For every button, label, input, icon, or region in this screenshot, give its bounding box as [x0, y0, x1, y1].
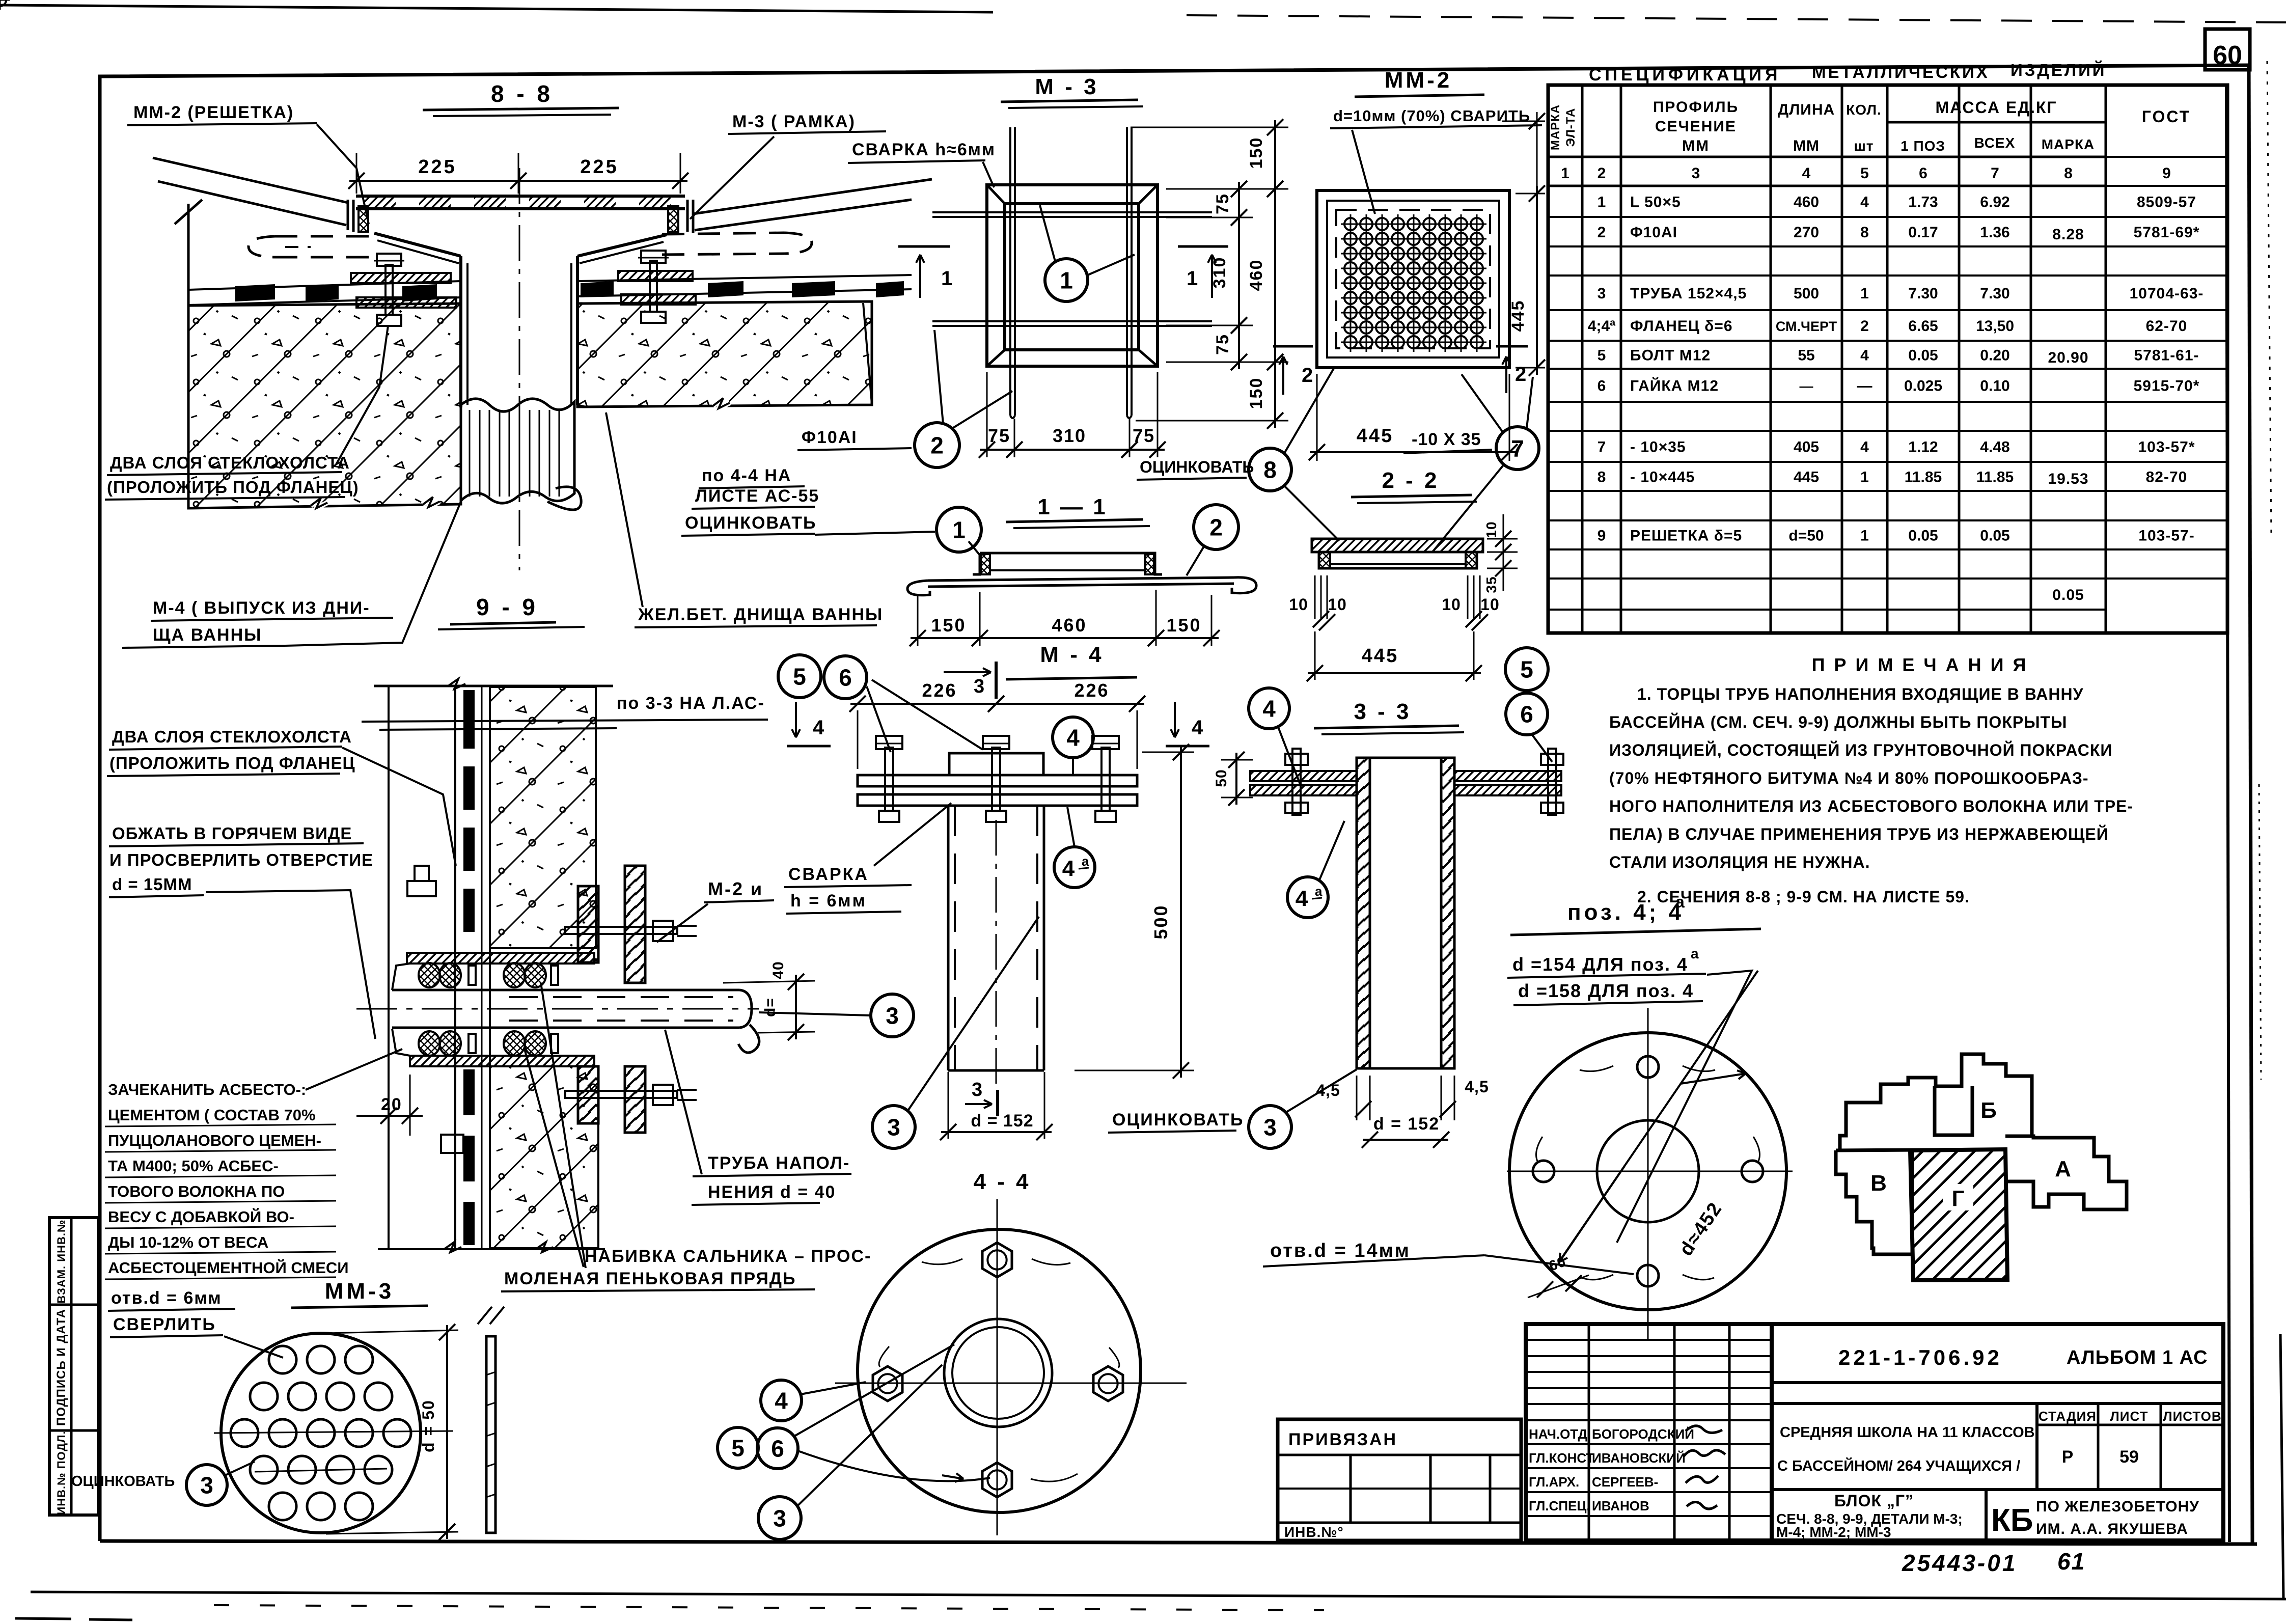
- svg-text:отв.d = 6мм: отв.d = 6мм: [111, 1288, 222, 1308]
- callout 3 MM-3: [186, 1465, 227, 1505]
- bath floor lines left: [153, 158, 348, 203]
- svg-text:4,5: 4,5: [1465, 1078, 1489, 1096]
- title block names table: [1588, 1324, 1590, 1540]
- MM-2 dashed border: [1327, 201, 1499, 357]
- detail 1-1 channel body: [980, 553, 1162, 574]
- svg-text:25443-01: 25443-01: [1902, 1550, 2017, 1576]
- svg-text:103-57*: 103-57*: [2138, 439, 2195, 456]
- svg-text:ЭЛ-ТА: ЭЛ-ТА: [1564, 108, 1578, 147]
- building plan block A outline: [2005, 1136, 2127, 1209]
- MM-3 break marks: [478, 1307, 504, 1324]
- svg-text:0.10: 0.10: [1980, 378, 2009, 395]
- svg-text:d = 15ММ: d = 15ММ: [112, 875, 192, 894]
- callout 4a M-4: [1054, 847, 1095, 888]
- M-4 dim d=152: [948, 1072, 949, 1139]
- svg-text:5: 5: [793, 664, 806, 690]
- MM-2 grate outer square: [1317, 190, 1509, 368]
- leader to grate: [317, 124, 369, 224]
- leader M-2: [657, 904, 708, 942]
- svg-text:а: а: [1082, 854, 1089, 869]
- grate right angle bracket: [686, 200, 689, 232]
- svg-text:ОЦИНКОВАТЬ: ОЦИНКОВАТЬ: [71, 1473, 175, 1490]
- 3-3 flange right: [1454, 771, 1561, 781]
- MM-3 holes: [269, 1346, 296, 1373]
- svg-text:310: 310: [1210, 257, 1229, 289]
- concrete slab right 8-8: [577, 301, 872, 407]
- svg-text:d = 50: d = 50: [419, 1399, 437, 1452]
- svg-text:ММ-3: ММ-3: [325, 1279, 394, 1304]
- svg-text:2: 2: [930, 432, 944, 459]
- 4-4 crosshair: [835, 1383, 1187, 1384]
- svg-text:ИНВ.№ ПОДЛ.: ИНВ.№ ПОДЛ.: [55, 1430, 68, 1515]
- svg-text:8: 8: [1263, 457, 1277, 483]
- svg-text:7: 7: [1511, 435, 1524, 462]
- svg-text:0.05: 0.05: [1908, 347, 1938, 364]
- pipe drip loop 9-9: [738, 1025, 759, 1053]
- M-4 center plate stub: [949, 753, 1043, 775]
- svg-text:НОГО НАПОЛНИТЕЛЯ ИЗ АСБЕСТО: НОГО НАПОЛНИТЕЛЯ ИЗ АСБЕСТОВОГО ВОЛОКНА …: [1609, 797, 2133, 815]
- svg-text:И ПРОСВЕРЛИТЬ ОТВЕРСТИЕ: И ПРОСВЕРЛИТЬ ОТВЕРСТИЕ: [109, 850, 373, 869]
- svg-text:3: 3: [1692, 165, 1700, 182]
- leader svarka M-3: [983, 162, 994, 187]
- svg-text:10: 10: [1289, 595, 1308, 614]
- svg-text:ФЛАНЕЦ δ=6: ФЛАНЕЦ δ=6: [1630, 318, 1733, 335]
- svg-text:2: 2: [1598, 165, 1606, 182]
- svg-text:ВЕСУ С ДОБАВКОЙ ВО-: ВЕСУ С ДОБАВКОЙ ВО-: [108, 1207, 294, 1226]
- svg-text:1 ПОЗ: 1 ПОЗ: [1901, 138, 1945, 154]
- svg-text:11.85: 11.85: [1976, 469, 2014, 486]
- svg-text:ГАЙКА М12: ГАЙКА М12: [1630, 377, 1719, 395]
- svg-text:МЕТАЛЛИЧЕСКИХ: МЕТАЛЛИЧЕСКИХ: [1812, 63, 1990, 81]
- svg-text:4: 4: [1062, 856, 1075, 881]
- svg-text:4: 4: [1860, 439, 1869, 456]
- poz4 diagonal dim d=452: [1558, 971, 1758, 1263]
- svg-text:СВАРКА: СВАРКА: [788, 865, 869, 884]
- svg-text:ПЕЛА) В СЛУЧАЕ ПРИМЕНЕНИЯ: ПЕЛА) В СЛУЧАЕ ПРИМЕНЕНИЯ ТРУБ ИЗ НЕРЖАВ…: [1609, 825, 2109, 843]
- svg-text:Φ10АI: Φ10АI: [1630, 224, 1677, 241]
- svg-text:ПУЦЦОЛАНОВОГО ЦЕМЕН-: ПУЦЦОЛАНОВОГО ЦЕМЕН-: [108, 1132, 321, 1149]
- leaders 4-4 callouts: [794, 1344, 954, 1436]
- svg-text:0.05: 0.05: [1980, 528, 2009, 544]
- svg-text:h = 6мм: h = 6мм: [790, 891, 867, 911]
- dashed anchor hook left: [275, 235, 377, 238]
- svg-text:4: 4: [1066, 725, 1080, 751]
- svg-text:8: 8: [1598, 469, 1606, 486]
- svg-text:МАРКА: МАРКА: [1549, 104, 1562, 150]
- svg-text:9: 9: [2162, 165, 2171, 182]
- poz4 bolt holes: [1637, 1056, 1659, 1078]
- svg-text:11.85: 11.85: [1905, 469, 1942, 486]
- svg-text:61: 61: [2057, 1548, 2085, 1575]
- svg-text:460: 460: [1052, 615, 1087, 636]
- svg-text:1. ТОРЦЫ ТРУБ НАПОЛНЕНИЯ ВХ: 1. ТОРЦЫ ТРУБ НАПОЛНЕНИЯ ВХОДЯЩИЕ В ВАНН…: [1637, 685, 2084, 703]
- section mark 3 bottom M-4: [996, 1090, 999, 1116]
- svg-text:5: 5: [1520, 656, 1533, 683]
- leader svarka M-4: [874, 803, 951, 866]
- svg-text:М-2 и: М-2 и: [708, 878, 763, 899]
- leader zhel bet: [606, 412, 643, 607]
- building plan notch rect: [1935, 1086, 1972, 1135]
- svg-text:ОЦИНКОВАТЬ: ОЦИНКОВАТЬ: [1112, 1110, 1244, 1130]
- leaders callout 6 M-4: [867, 686, 891, 752]
- svg-text:БОГОРОДСКИЙ: БОГОРОДСКИЙ: [1592, 1426, 1694, 1442]
- building plan letter G: [1943, 1184, 1973, 1210]
- svg-text:а: а: [1315, 884, 1323, 899]
- svg-text:2: 2: [1860, 318, 1869, 335]
- funnel walls: [374, 233, 461, 256]
- sheet number box 60: [2205, 29, 2250, 70]
- callout 3 3-3: [1249, 1106, 1291, 1148]
- svg-text:1: 1: [1860, 469, 1869, 486]
- svg-text:4,5: 4,5: [1316, 1081, 1340, 1099]
- svg-text:А: А: [2055, 1157, 2071, 1181]
- svg-text:ГОСТ: ГОСТ: [2142, 107, 2191, 126]
- M-3 bottom dimension 75 310 75: [986, 372, 988, 457]
- 2-2 right small dims 10 35: [1487, 538, 1518, 540]
- membrane band right: [577, 275, 912, 281]
- svg-text:10: 10: [1328, 595, 1347, 614]
- svg-text:ИВАНОВ: ИВАНОВ: [1592, 1498, 1649, 1513]
- leaders callout 8: [1284, 368, 1334, 453]
- title block stage-sheet columns: [2035, 1403, 2039, 1490]
- callout 6 3-3: [1506, 693, 1548, 735]
- svg-text:НАЧ.ОТД.: НАЧ.ОТД.: [1529, 1426, 1591, 1442]
- 9-9 reference lines: [362, 720, 768, 722]
- svg-text:460: 460: [1247, 259, 1266, 291]
- svg-text:НАБИВКА САЛЬНИКА – ПРОС-: НАБИВКА САЛЬНИКА – ПРОС-: [585, 1247, 871, 1266]
- svg-text:ИЗДЕЛИЙ: ИЗДЕЛИЙ: [2010, 60, 2107, 79]
- svg-text:ПРИВЯЗАН: ПРИВЯЗАН: [1288, 1430, 1397, 1449]
- 3-3 pipe walls hatched: [1357, 758, 1370, 1068]
- svg-text:КБ: КБ: [1991, 1503, 2033, 1538]
- svg-text:1: 1: [1060, 267, 1073, 294]
- svg-text:150: 150: [1247, 137, 1266, 169]
- M-3 frame corner miters: [987, 185, 1005, 204]
- callout 8: [1249, 448, 1291, 491]
- M-4 dim 226 226: [857, 710, 859, 769]
- svg-text:150: 150: [931, 615, 966, 636]
- svg-text:1.36: 1.36: [1980, 224, 2009, 241]
- svg-text:5: 5: [1860, 165, 1869, 182]
- svg-text:поз. 4; 4: поз. 4; 4: [1567, 900, 1684, 925]
- 3-3 flange left: [1250, 771, 1357, 781]
- svg-text:2: 2: [1515, 363, 1526, 386]
- svg-text:СТАЛИ ИЗОЛЯЦИЯ НЕ НУЖНА.: СТАЛИ ИЗОЛЯЦИЯ НЕ НУЖНА.: [1609, 853, 1870, 871]
- svg-text:СТАДИЯ: СТАДИЯ: [2039, 1409, 2097, 1424]
- svg-text:4: 4: [775, 1388, 788, 1414]
- 9-9 upper bolt: [565, 927, 677, 934]
- svg-text:БАССЕЙНА (СМ. СЕЧ. 9-9) ДОЛ: БАССЕЙНА (СМ. СЕЧ. 9-9) ДОЛЖНЫ БЫТЬ ПОКР…: [1609, 713, 2067, 731]
- svg-text:М-4; ММ-2; ММ-3: М-4; ММ-2; ММ-3: [1776, 1524, 1891, 1540]
- 9-9 packing rings upper: [419, 963, 440, 987]
- svg-text:L 50×5: L 50×5: [1630, 194, 1681, 211]
- M-3 horizontal rods: [932, 211, 1212, 213]
- svg-text:ПОДПИСЬ И ДАТА: ПОДПИСЬ И ДАТА: [54, 1309, 68, 1426]
- svg-text:5: 5: [1598, 347, 1606, 364]
- section mark 2 left MM-2: [1273, 345, 1313, 348]
- svg-text:3: 3: [974, 676, 984, 697]
- 9-9 wall layers: [454, 686, 456, 1249]
- 4-4 nut swash arcs: [922, 1259, 962, 1264]
- leader truba: [665, 1030, 702, 1174]
- 9-9 wall black membrane strips: [463, 690, 475, 749]
- 4-4 center hole: [944, 1319, 1052, 1427]
- svg-text:по 3-3 НА Л.АС-: по 3-3 НА Л.АС-: [617, 694, 765, 713]
- svg-text:а: а: [1675, 893, 1685, 911]
- svg-text:d = 152: d = 152: [971, 1111, 1033, 1131]
- title block left table ПРИВЯЗАН: [1278, 1419, 1521, 1540]
- svg-text:150: 150: [1247, 377, 1266, 409]
- callout 6 4-4: [757, 1428, 798, 1469]
- svg-text:82-70: 82-70: [2146, 469, 2188, 486]
- svg-text:20.90: 20.90: [2048, 349, 2088, 366]
- svg-text:отв.d = 14мм: отв.d = 14мм: [1270, 1240, 1411, 1261]
- svg-text:0.05: 0.05: [2052, 587, 2084, 603]
- 9-9 concrete wall upper: [490, 687, 596, 948]
- svg-text:М - 3: М - 3: [1035, 74, 1098, 99]
- svg-text:4;4ª: 4;4ª: [1588, 318, 1616, 335]
- svg-text:75: 75: [1213, 334, 1232, 355]
- svg-text:40: 40: [770, 961, 787, 979]
- svg-text:СМ.ЧЕРТ: СМ.ЧЕРТ: [1776, 319, 1837, 334]
- callout 7: [1496, 427, 1539, 470]
- svg-text:- 10×445: - 10×445: [1630, 469, 1695, 486]
- svg-text:СВЕРЛИТЬ: СВЕРЛИТЬ: [113, 1315, 216, 1334]
- svg-text:445: 445: [1362, 645, 1398, 667]
- svg-text:13,50: 13,50: [1976, 318, 2014, 335]
- svg-text:7: 7: [1598, 439, 1606, 456]
- svg-text:(ПРОЛОЖИТЬ ПОД ФЛАНЕЦ): (ПРОЛОЖИТЬ ПОД ФЛАНЕЦ): [107, 478, 359, 497]
- svg-text:ИНВ.№°: ИНВ.№°: [1284, 1524, 1344, 1540]
- building plan block V outline: [1836, 1150, 1912, 1254]
- svg-text:1.12: 1.12: [1908, 439, 1938, 456]
- svg-text:60: 60: [2213, 41, 2242, 70]
- callout 5 4-4: [718, 1427, 758, 1468]
- grate left angle bracket: [347, 200, 349, 230]
- 9-9 left anchor nuts: [407, 881, 436, 896]
- svg-text:3: 3: [773, 1505, 786, 1532]
- M-3 vertical rods: [1009, 127, 1011, 416]
- svg-text:ИЗОЛЯЦИЕЙ, СОСТОЯЩЕЙ ИЗ ГРУНТ: ИЗОЛЯЦИЕЙ, СОСТОЯЩЕЙ ИЗ ГРУНТОВОЧНОЙ ПОК…: [1609, 741, 2112, 759]
- 3-3 bolts: [1292, 749, 1301, 815]
- section mark 3 top M-4: [995, 662, 998, 699]
- svg-text:(70% НЕФТЯНОГО БИТУМА №4 И: (70% НЕФТЯНОГО БИТУМА №4 И 80% ПОРОШКООБ…: [1609, 769, 2089, 787]
- svg-text:МОЛЕНАЯ ПЕНЬКОВАЯ ПРЯДЬ: МОЛЕНАЯ ПЕНЬКОВАЯ ПРЯДЬ: [504, 1269, 796, 1288]
- svg-text:ЛИСТОВ: ЛИСТОВ: [2163, 1409, 2221, 1424]
- dashed anchor hook right: [662, 233, 784, 234]
- 9-9 wall bottom line: [378, 1248, 605, 1250]
- MM-3 side bar: [486, 1336, 495, 1533]
- svg-text:по 4-4 НА: по 4-4 НА: [702, 466, 791, 485]
- svg-text:75: 75: [1213, 193, 1232, 214]
- 9-9 lower bolt: [565, 1091, 677, 1098]
- svg-text:ЛИСТЕ АС-55: ЛИСТЕ АС-55: [695, 486, 819, 506]
- svg-text:8: 8: [1860, 224, 1869, 241]
- 2-2 bottom dims 10 10 pairs: [1314, 575, 1316, 619]
- svg-text:9: 9: [1598, 528, 1606, 544]
- title block project row: [1772, 1381, 2223, 1384]
- svg-text:МАРКА: МАРКА: [2042, 136, 2095, 152]
- svg-text:8: 8: [2064, 165, 2073, 182]
- section mark 4 down left: [795, 702, 797, 737]
- svg-text:ЛИСТ: ЛИСТ: [2110, 1409, 2149, 1424]
- svg-text:РЕШЕТКА δ=5: РЕШЕТКА δ=5: [1630, 528, 1742, 544]
- signature squiggles: [1686, 1426, 1722, 1433]
- poz4 crosshair: [1507, 1171, 1793, 1172]
- svg-text:1: 1: [1860, 285, 1869, 302]
- svg-text:7: 7: [1991, 165, 1999, 182]
- svg-text:1: 1: [1598, 194, 1606, 211]
- svg-text:ПРОФИЛЬ: ПРОФИЛЬ: [1653, 99, 1739, 116]
- M-4 bolts: [885, 748, 893, 811]
- svg-text:3: 3: [886, 1003, 899, 1029]
- svg-text:ДЫ 10-12% ОТ ВЕСА: ДЫ 10-12% ОТ ВЕСА: [108, 1233, 268, 1251]
- 9-9 left boundary line: [388, 686, 390, 1249]
- svg-text:ЖЕЛ.БЕТ. ДНИЩА ВАННЫ: ЖЕЛ.БЕТ. ДНИЩА ВАННЫ: [638, 605, 883, 624]
- svg-text:ММ-2: ММ-2: [1385, 68, 1452, 93]
- MM-2 dimension 445 bottom: [1316, 374, 1318, 461]
- 4-4 hex nuts: [982, 1243, 1012, 1277]
- M-3 frame outer square: [987, 185, 1158, 366]
- svg-text:460: 460: [1794, 194, 1819, 211]
- svg-text:М - 4: М - 4: [1040, 642, 1104, 667]
- svg-text:ММ: ММ: [1682, 137, 1710, 154]
- svg-text:П Р И М Е Ч А Н И Я: П Р И М Е Ч А Н И Я: [1812, 654, 2028, 675]
- pipe centerline: [519, 168, 520, 570]
- title block sheet content: [1985, 1490, 1988, 1540]
- M-3 dimension chain 75 310 75 right: [1166, 188, 1253, 190]
- svg-text:10704-63-: 10704-63-: [2130, 285, 2204, 302]
- svg-text:СВАРКА h≈6мм: СВАРКА h≈6мм: [852, 140, 996, 159]
- svg-text:ГЛ.СПЕЦ.: ГЛ.СПЕЦ.: [1529, 1498, 1590, 1513]
- svg-text:4: 4: [1860, 194, 1869, 211]
- drain pipe 8-8: [459, 256, 462, 407]
- dim 40 right of pipe 9-9: [723, 981, 815, 983]
- section mark 1 right: [1178, 245, 1228, 248]
- leader zachekanit: [306, 1049, 402, 1090]
- callout 4 3-3: [1249, 688, 1289, 729]
- callout 2 M-3: [915, 423, 959, 467]
- svg-text:5915-70*: 5915-70*: [2134, 378, 2200, 395]
- left boundary line 8-8: [187, 204, 190, 508]
- svg-text:4: 4: [1860, 347, 1869, 364]
- svg-text:ЗАЧЕКАНИТЬ АСБЕСТО-:: ЗАЧЕКАНИТЬ АСБЕСТО-:: [108, 1081, 306, 1098]
- svg-text:0.05: 0.05: [1908, 528, 1938, 544]
- leader to flange holes: [1617, 971, 1752, 1243]
- svg-text:4: 4: [1296, 886, 1308, 911]
- svg-text:3: 3: [1598, 285, 1606, 302]
- leader sverlit: [224, 1336, 283, 1358]
- svg-text:ДВА СЛОЯ СТЕКЛОХОЛСТА: ДВА СЛОЯ СТЕКЛОХОЛСТА: [112, 727, 352, 746]
- bath floor lines right: [693, 179, 932, 214]
- svg-text:ММ: ММ: [1793, 137, 1820, 154]
- svg-text:4: 4: [1192, 717, 1203, 739]
- svg-text:АСБЕСТОЦЕМЕНТНОЙ СМЕСИ: АСБЕСТОЦЕМЕНТНОЙ СМЕСИ: [108, 1258, 349, 1277]
- section mark 4 down right: [1174, 702, 1176, 737]
- svg-text:1: 1: [1860, 528, 1869, 544]
- leader dva sloya 9-9: [342, 748, 456, 866]
- svg-text:4: 4: [1802, 165, 1811, 182]
- detail 1-1 bottom strip with hooks: [928, 577, 1234, 581]
- svg-text:ОБЖАТЬ В ГОРЯЧЕМ ВИДЕ: ОБЖАТЬ В ГОРЯЧЕМ ВИДЕ: [112, 824, 352, 843]
- svg-text:1: 1: [1187, 267, 1198, 290]
- svg-text:6.65: 6.65: [1908, 318, 1938, 335]
- 9-9 sleeve top plate: [407, 953, 594, 964]
- svg-text:62-70: 62-70: [2146, 318, 2188, 335]
- M-4 pipe body: [947, 806, 950, 1070]
- svg-text:5: 5: [731, 1435, 745, 1462]
- svg-text:2: 2: [1302, 364, 1313, 387]
- leaders callout 7: [1462, 374, 1503, 433]
- title block main outline: [1526, 1324, 2223, 1540]
- svg-text:19.53: 19.53: [2048, 471, 2088, 487]
- 9-9 filling pipe: [392, 989, 739, 992]
- svg-text:БОЛТ М12: БОЛТ М12: [1630, 347, 1711, 364]
- svg-text:Г: Г: [1952, 1186, 1965, 1211]
- grate plate section 8-8: [356, 195, 685, 198]
- svg-text:КОЛ.: КОЛ.: [1846, 102, 1882, 118]
- left margin stamp boxes: [49, 1218, 98, 1515]
- svg-text:5781-69*: 5781-69*: [2134, 224, 2200, 241]
- svg-text:ТОВОГО ВОЛОКНА ПО: ТОВОГО ВОЛОКНА ПО: [108, 1182, 285, 1200]
- 3-3 dim d=152: [1363, 1139, 1448, 1141]
- svg-text:ТРУБА НАПОЛ-: ТРУБА НАПОЛ-: [708, 1153, 850, 1173]
- svg-text:0.20: 0.20: [1980, 347, 2009, 364]
- section mark 1 left: [898, 245, 950, 248]
- right slab broken edge: [863, 303, 872, 404]
- svg-text:М-4 ( ВЫПУСК ИЗ ДНИ-: М-4 ( ВЫПУСК ИЗ ДНИ-: [153, 598, 370, 618]
- scan artifact top paper edge: [0, 5, 993, 12]
- section mark 2 right MM-2: [1496, 345, 1528, 348]
- svg-text:ТА М400; 50% АСБЕС-: ТА М400; 50% АСБЕС-: [108, 1157, 279, 1175]
- svg-text:3 - 3: 3 - 3: [1354, 699, 1411, 724]
- svg-text:БЛОК „Г”: БЛОК „Г”: [1834, 1492, 1914, 1510]
- svg-text:МАССА ЕД.КГ: МАССА ЕД.КГ: [1935, 98, 2057, 117]
- svg-text:35: 35: [1483, 576, 1499, 593]
- svg-text:225: 225: [418, 156, 456, 178]
- svg-text:10: 10: [1480, 595, 1500, 614]
- 9-9 wall top line: [374, 685, 613, 687]
- svg-text:226: 226: [1074, 680, 1109, 701]
- svg-text:d = 152: d = 152: [1373, 1114, 1440, 1134]
- svg-text:75: 75: [1133, 425, 1155, 446]
- building plan block G hatched: [1910, 1149, 2007, 1280]
- svg-text:ВЗАМ. ИНВ.№: ВЗАМ. ИНВ.№: [55, 1219, 68, 1303]
- svg-text:НЕНИЯ d = 40: НЕНИЯ d = 40: [708, 1182, 836, 1202]
- leader M-3 ramka: [690, 136, 774, 219]
- svg-text:9 - 9: 9 - 9: [476, 594, 538, 620]
- svg-text:—: —: [1857, 378, 1872, 395]
- svg-text:Р: Р: [2062, 1447, 2074, 1467]
- callout 1 M-3: [1045, 259, 1088, 301]
- svg-text:226: 226: [922, 680, 957, 701]
- svg-text:Φ10АI: Φ10АI: [802, 428, 858, 447]
- svg-text:СЕРГЕЕВ-: СЕРГЕЕВ-: [1592, 1474, 1658, 1490]
- svg-text:2. СЕЧЕНИЯ 8-8 ; 9-9 СМ.: 2. СЕЧЕНИЯ 8-8 ; 9-9 СМ. НА ЛИСТЕ 59.: [1637, 888, 1970, 906]
- callout 4 4-4: [761, 1380, 802, 1421]
- svg-text:405: 405: [1794, 439, 1819, 456]
- svg-text:6: 6: [1598, 378, 1606, 395]
- MM-3 vertical dim d=50: [326, 1330, 458, 1333]
- svg-text:СЕЧЕНИЕ: СЕЧЕНИЕ: [1655, 118, 1737, 135]
- svg-text:6: 6: [771, 1436, 784, 1462]
- svg-text:1: 1: [941, 267, 952, 290]
- svg-text:ДЛИНА: ДЛИНА: [1778, 101, 1835, 118]
- scan artifact right paper edge: [2280, 1334, 2283, 1599]
- 9-9 gland left: [392, 964, 410, 990]
- svg-text:4: 4: [813, 717, 824, 739]
- svg-text:0.17: 0.17: [1908, 224, 1938, 241]
